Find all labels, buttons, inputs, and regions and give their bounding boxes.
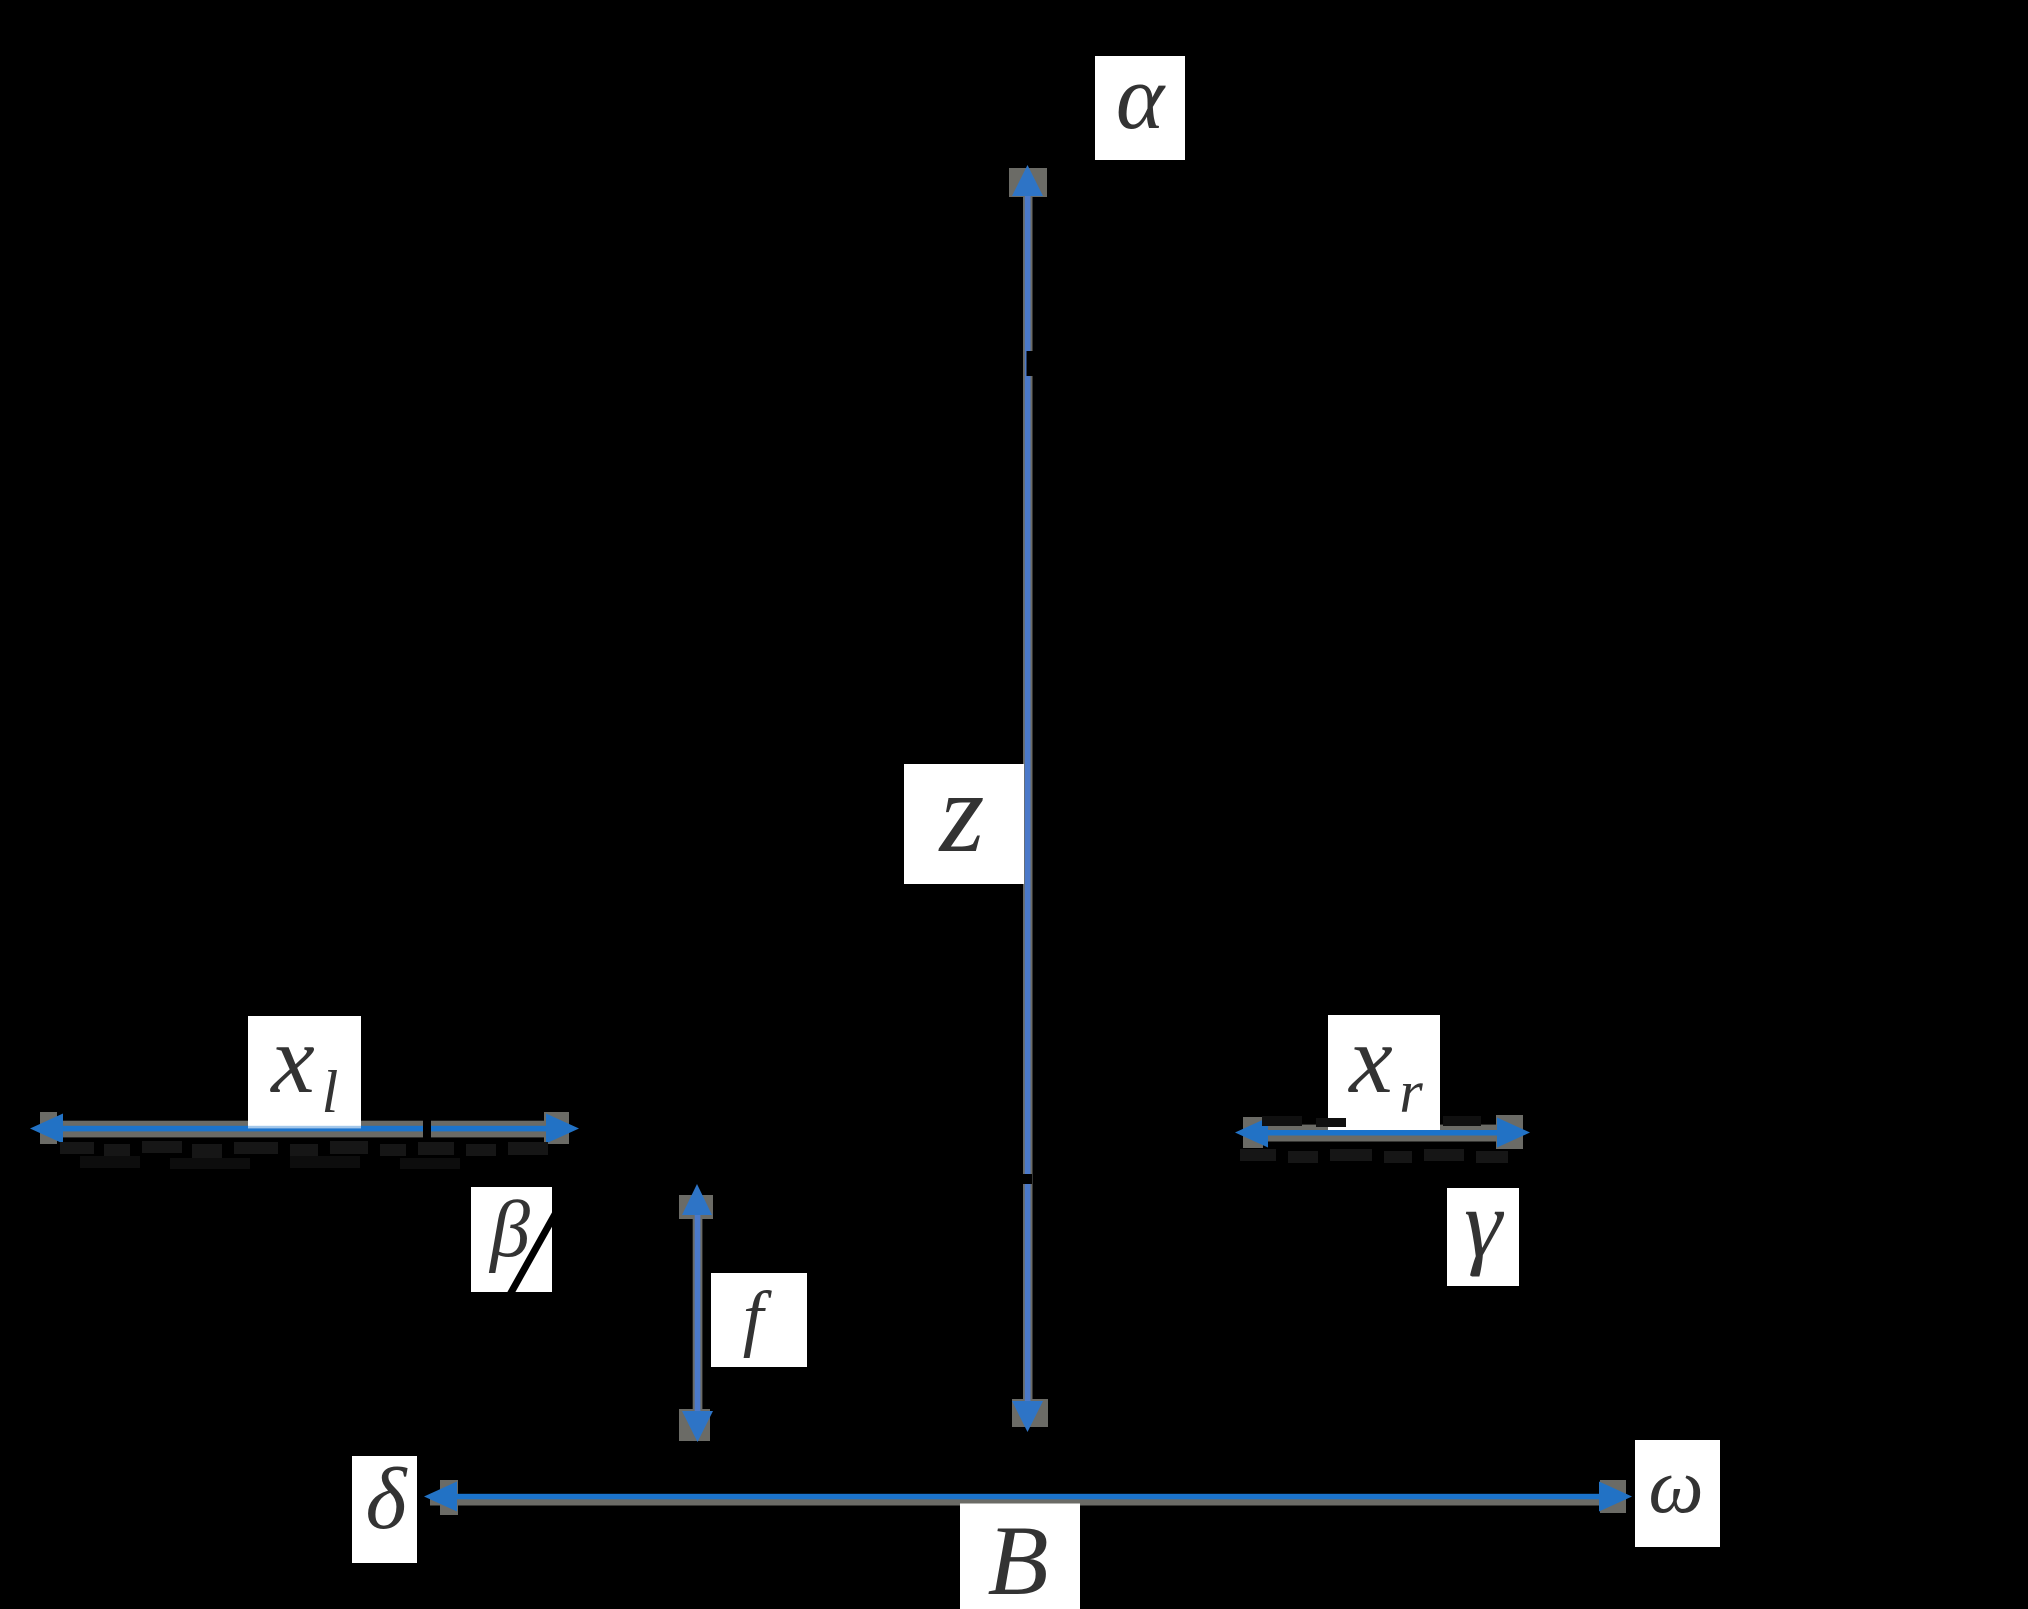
- svg-text:r: r: [1399, 1059, 1423, 1125]
- label box omega: [1635, 1440, 1720, 1547]
- svg-text:x: x: [1347, 1006, 1393, 1114]
- svg-text:γ: γ: [1464, 1170, 1504, 1277]
- svg-text:x: x: [269, 1006, 315, 1114]
- blue of arrow B: [424, 1482, 1632, 1512]
- svg-text:z: z: [938, 749, 985, 876]
- label box x_r: [1328, 1015, 1440, 1131]
- label box f: [711, 1273, 807, 1367]
- svg-text:β: β: [488, 1186, 530, 1274]
- faint residue dashes under x_l axis: [60, 1141, 548, 1158]
- blue of arrow f: [682, 1184, 713, 1442]
- svg-text:B: B: [987, 1505, 1048, 1609]
- label box delta: [352, 1456, 417, 1563]
- faint residue dashes around x_r axis: [1262, 1116, 1481, 1127]
- gray halo of arrow f: [679, 1195, 713, 1441]
- overlap sliver of x_l box over its arrow: [248, 1125, 361, 1128]
- ray through beta box (left camera sight line): [503, 1191, 568, 1307]
- tick on x_l axis (principal point): [423, 1119, 431, 1140]
- label box gamma: [1447, 1188, 1519, 1286]
- label box z: [904, 764, 1024, 884]
- gray halo of arrow B: [430, 1480, 1626, 1515]
- label box B: [960, 1504, 1080, 1609]
- svg-text:l: l: [322, 1059, 339, 1125]
- label box x_l: [248, 1016, 361, 1127]
- blue of arrow x_l: [30, 1114, 579, 1144]
- gray halo of arrow z: [1009, 168, 1048, 1427]
- svg-text:δ: δ: [366, 1451, 409, 1548]
- svg-text:α: α: [1116, 46, 1166, 148]
- label box alpha: [1095, 56, 1185, 160]
- notch on z axis (lower tick): [1023, 1174, 1032, 1184]
- blue of arrow z: [1012, 165, 1043, 1432]
- label box beta: [471, 1187, 552, 1292]
- notch on z axis (upper occlusion): [1027, 351, 1040, 376]
- gray halo of arrow x_r: [1243, 1115, 1523, 1149]
- gray halo of arrow x_l: [40, 1112, 569, 1144]
- blue of arrow x_r: [1235, 1118, 1530, 1148]
- svg-text:ω: ω: [1648, 1442, 1703, 1529]
